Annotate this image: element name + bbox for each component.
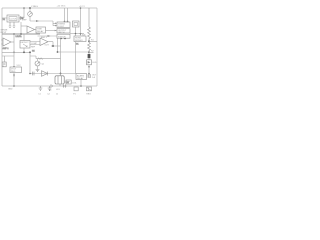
wire center vertical x60.5: [60, 38, 62, 73]
wire horn feed y73.5: [30, 73, 76, 75]
wire mid line y52 to resistor chain: [58, 51, 90, 53]
wire mid vertical x30: [29, 52, 31, 73]
svg-text:+12 V: +12 V: [79, 6, 85, 8]
svg-text:COIL: COIL: [72, 83, 78, 85]
svg-text:LS1: LS1: [56, 89, 60, 91]
diode D1: [19, 17, 24, 20]
wire long line y56: [2, 55, 36, 57]
wire rail tap 1: [64, 8, 66, 22]
node dot at (60,73.5): [60, 73, 62, 75]
wire sensor to junction: [75, 27, 77, 36]
svg-text:J1: J1: [56, 94, 59, 96]
wire R2 tap: [89, 51, 94, 53]
wire Q2 emitter to ground: [37, 66, 39, 70]
op-amp A2: [27, 26, 35, 33]
wire rail drop x80.5 with arrow: [80, 8, 82, 35]
node dot at (80.5,8): [80, 7, 82, 9]
wire U5 top tap: [23, 34, 25, 41]
svg-text:SW: SW: [82, 35, 85, 37]
wire A2 output: [35, 29, 37, 31]
svg-text:LEVEL: LEVEL: [16, 36, 23, 38]
svg-text:OUT: OUT: [45, 45, 50, 47]
wire Q2 top tap: [37, 59, 39, 61]
wire A2 plus input: [21, 25, 27, 27]
svg-text:INPUT: INPUT: [1, 32, 8, 34]
node dot at (30,52.3): [29, 51, 31, 53]
wire B1 to y56: [4, 56, 6, 62]
wire U3 right to sensor drop: [70, 33, 84, 35]
node dot at (89,41.3): [88, 40, 90, 42]
timer box U2: [57, 22, 70, 28]
polarity tick below LED: [88, 66, 90, 68]
fuse box F2 below rail: [86, 87, 91, 91]
node dot at (14,34): [13, 33, 15, 35]
wire K1 bottom to rail: [80, 80, 82, 87]
wire vertical from rail to D1: [23, 8, 25, 18]
node dot at (53,46): [52, 45, 54, 47]
capacitor C3: [32, 72, 34, 76]
svg-text:F1: F1: [73, 94, 76, 96]
svg-text:C1: C1: [38, 94, 41, 96]
battery sym left of horn: [51, 84, 53, 88]
op-amp A1: [3, 38, 11, 46]
horn aux box: [66, 80, 71, 84]
node dot at (75.5,33.5): [75, 33, 77, 35]
oscillator U1 box: [7, 15, 19, 22]
resistor R2: [88, 41, 91, 52]
small comp right of K1: [88, 75, 91, 78]
time delay box U4: [36, 27, 46, 33]
svg-text:CLOCK: CLOCK: [10, 18, 18, 20]
wire right border: [96, 8, 98, 86]
node dot at (21,34): [20, 33, 22, 35]
wire U6 bottom long vertical x75.5: [75, 42, 77, 74]
wire bias line y21 with arrow: [30, 20, 53, 22]
connector J1 on rail: [63, 84, 67, 87]
svg-text:R2: R2: [91, 50, 94, 52]
wire D2 down to box: [88, 58, 90, 73]
wire rail tap 2: [67, 8, 69, 22]
node dot at (30,8): [29, 7, 31, 9]
wire A3 output: [48, 42, 53, 46]
crystal Y1 lead stubs: [9, 22, 16, 27]
svg-text:X1: X1: [3, 19, 6, 21]
wire horn bottom to rail: [59, 84, 61, 86]
wire long line y46: [51, 45, 61, 47]
node dot at (57.5,52): [57, 51, 59, 53]
wire A1 output to x14: [11, 41, 14, 43]
wire base line y58.6 with resistor R3: [36, 56, 61, 59]
svg-text:RELAY: RELAY: [77, 77, 84, 80]
wire top rail B+: [2, 7, 97, 9]
battery B1 small box: [2, 62, 6, 67]
svg-text:S1: S1: [76, 43, 79, 45]
status box U3b: [57, 34, 70, 38]
wire U5 bottom to y52: [23, 48, 25, 52]
node dots under rail taps: [64, 21, 66, 23]
svg-text:DETECT: DETECT: [21, 42, 30, 44]
regulator box U7: [10, 67, 22, 73]
svg-text:GND: GND: [8, 89, 13, 91]
thermistor RT1 dark body: [88, 54, 91, 58]
fuse box F1 below rail: [74, 87, 78, 91]
wire into U7 arrow: [13, 66, 15, 67]
svg-text:REF: REF: [31, 47, 36, 49]
ground symbol under Q2: [36, 70, 40, 72]
svg-text:IREF: IREF: [22, 20, 27, 22]
svg-text:REG: REG: [86, 94, 91, 96]
svg-text:REG: REG: [11, 71, 16, 73]
wire oscillator input stub: [2, 17, 7, 19]
sensor box-in-box: [73, 21, 80, 27]
wire R1 tap to right border: [89, 40, 97, 42]
svg-text:AMP 2: AMP 2: [41, 36, 48, 39]
wire U4 output arrow to U3: [46, 30, 57, 32]
svg-text:COMP: COMP: [31, 43, 38, 45]
svg-text:VCC: VCC: [17, 65, 22, 67]
wire rail to circle: [29, 8, 31, 12]
alarm relay box K1: [76, 74, 87, 80]
node dot at (14,86): [13, 85, 15, 87]
LED D2 box: [87, 60, 92, 65]
node dot at (89,73.5): [88, 73, 90, 75]
svg-text:LATCH: LATCH: [58, 31, 65, 34]
ground symbol G1: [39, 86, 43, 90]
svg-text:AMP 1: AMP 1: [3, 47, 10, 50]
svg-text:R5: R5: [32, 51, 35, 53]
wire A1 input stubs: [1, 40, 3, 44]
svg-text:STATUS: STATUS: [58, 35, 66, 38]
logic box U3: [57, 29, 70, 33]
node dot at (89,52.3): [88, 51, 90, 53]
wire circle to bias line: [29, 16, 31, 21]
wire center vertical x57.5 lower: [57, 46, 59, 52]
svg-text:C2: C2: [47, 94, 50, 96]
op-amp A3: [40, 38, 48, 46]
node dot at (24,52): [23, 51, 25, 53]
svg-text:DRIVER: DRIVER: [75, 40, 83, 42]
wire arrow line y35: [38, 35, 58, 37]
wire U7 bottom to rail with arrow: [13, 73, 15, 87]
svg-text:DELAY: DELAY: [37, 30, 44, 33]
transistor Q2 circle: [35, 61, 40, 66]
diode D3: [42, 71, 48, 77]
resistor R1: [88, 8, 91, 41]
svg-text:LED: LED: [92, 62, 96, 64]
function box U5: [20, 41, 30, 49]
wire horn top feed: [60, 74, 62, 77]
wire A2 feedback vertical: [20, 22, 22, 34]
node dot at (24,8): [23, 7, 25, 9]
ground symbol G2: [48, 86, 52, 90]
wire thick bus y34: [2, 33, 40, 35]
current source Q1 circle: [28, 12, 33, 17]
svg-text:Q1: Q1: [42, 64, 46, 66]
svg-text:LOGIC: LOGIC: [58, 26, 65, 28]
wire branch into timer box: [53, 21, 57, 26]
wire U5 outputs to A3: [30, 42, 40, 45]
wire long line y52: [2, 51, 30, 53]
wire main left vertical x14: [13, 34, 15, 67]
wire box3 drop left: [57, 38, 59, 46]
wire left border: [1, 8, 3, 86]
horn LS1: [55, 76, 64, 84]
node dot at (30,73.5): [29, 73, 31, 75]
svg-text:V REG: V REG: [31, 6, 38, 8]
driver box U6: [74, 36, 86, 42]
svg-text:BT: BT: [49, 90, 52, 92]
svg-text:+12 VDC: +12 VDC: [57, 6, 66, 8]
wire x14 crossing dots: [13, 52, 15, 54]
wire bottom ground rail: [2, 85, 97, 87]
